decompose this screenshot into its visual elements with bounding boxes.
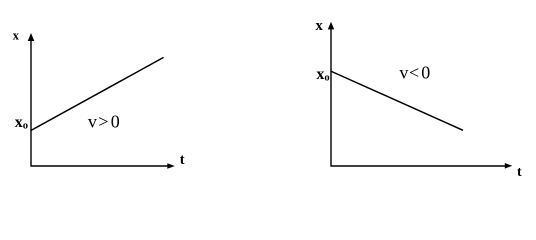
- left graph y-axis: [28, 33, 35, 167]
- right graph x-axis: [331, 163, 513, 169]
- svg-text:t: t: [517, 165, 522, 180]
- svg-text:xo: xo: [316, 66, 329, 84]
- svg-text:x: x: [316, 18, 324, 34]
- left graph x-axis: [31, 163, 175, 169]
- right graph position line (falling): [331, 71, 464, 130]
- svg-text:v>0: v>0: [88, 111, 120, 131]
- svg-text:xo: xo: [15, 114, 28, 132]
- svg-text:v<0: v<0: [399, 62, 430, 82]
- svg-text:x: x: [13, 29, 20, 43]
- svg-text:t: t: [180, 152, 185, 168]
- left graph position line (rising): [31, 57, 164, 130]
- right graph y-axis: [328, 22, 334, 167]
